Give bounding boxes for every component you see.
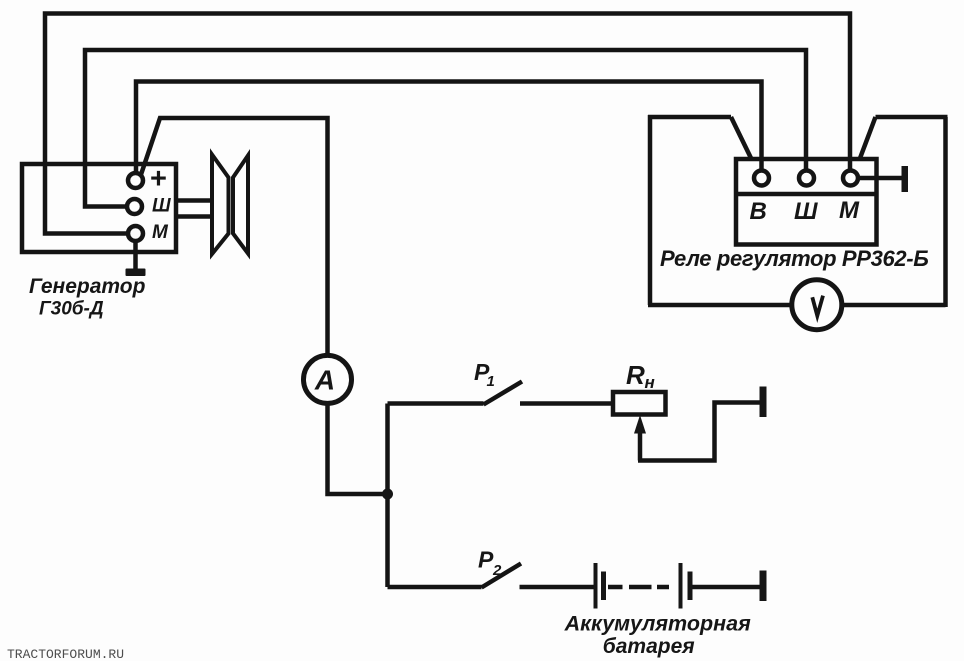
battery cell 1 long plate (594, 563, 598, 609)
relay terminal В (754, 171, 769, 186)
svg-text:TRACTORFORUM.RU: TRACTORFORUM.RU (7, 647, 124, 661)
wire: generator Ш to relay Ш (second loop) (85, 50, 806, 207)
wire: generator М to relay М (outermost loop) (45, 14, 850, 234)
rheostat wiper arrow shaft (638, 430, 643, 461)
wire: rheostat wiper to load terminal (638, 403, 760, 461)
wire: relay box top edge diagonal into terminal М (855, 117, 876, 172)
svg-text:Генератор: Генератор (29, 275, 146, 298)
wire: branch to switch P2 (388, 585, 482, 590)
wire: relay М terminal stub to stud (859, 176, 902, 181)
wire: battery to terminal bar (693, 585, 760, 590)
battery terminal bar (760, 571, 767, 602)
generator terminal Ш (127, 199, 142, 214)
voltmeter V (792, 280, 842, 330)
ammeter A (304, 355, 352, 403)
relay terminal Ш (799, 171, 814, 186)
wire: generator + through ammeter to junction node (141, 118, 388, 494)
ground symbol bar (126, 269, 146, 277)
svg-text:батарея: батарея (603, 635, 695, 658)
rheostat Rн body (613, 392, 666, 415)
relay terminal block divider line (736, 192, 877, 197)
svg-text:A: A (314, 365, 335, 396)
wire: generator М terminal to ground (133, 242, 138, 269)
svg-text:н: н (645, 373, 655, 392)
junction node dot (382, 489, 393, 500)
svg-text:2: 2 (492, 562, 502, 579)
relay terminal М (843, 171, 858, 186)
svg-text:Реле регулятор РР362-Б: Реле регулятор РР362-Б (660, 246, 928, 271)
svg-text:R: R (626, 360, 645, 390)
svg-text:Аккумуляторная: Аккумуляторная (564, 612, 751, 636)
wire: switch P2 to battery (520, 585, 594, 590)
svg-text:1: 1 (487, 373, 495, 390)
relay-regulator outer box top edge right segment (876, 115, 948, 120)
wire: dashed link between battery cells (608, 585, 669, 590)
svg-text:Ш: Ш (794, 198, 818, 225)
wire: junction branch vertical (to P1 and P2 feeds) (385, 404, 390, 588)
svg-text:М: М (839, 197, 860, 224)
battery cell 2 short plate (688, 572, 693, 601)
load terminal bar (right of Rн) (760, 387, 767, 418)
wire: relay box top edge diagonal into terminal В (731, 117, 758, 172)
wire: shaft lines from generator to pulley (176, 201, 212, 217)
svg-text:М: М (152, 222, 169, 243)
svg-text:Г30б-Д: Г30б-Д (39, 299, 104, 320)
wire: switch P1 to rheostat Rн (520, 401, 613, 406)
wire: branch to switch P1 (388, 401, 484, 406)
battery cell 2 long plate (679, 563, 683, 609)
pulley left sheave (212, 155, 229, 255)
rheostat wiper arrowhead (634, 415, 646, 434)
wire: generator + to relay В (third loop) (136, 82, 762, 175)
battery cell 1 short plate (601, 572, 606, 601)
relay-regulator outer box right edge (943, 117, 948, 307)
stud terminal bar at relay М (902, 166, 909, 192)
relay-regulator outer box left edge (648, 115, 653, 305)
generator box Г306-Д (22, 164, 176, 252)
generator terminal М (128, 226, 143, 241)
pulley right sheave (233, 156, 248, 254)
generator terminal + (128, 173, 143, 188)
switch P1 blade (484, 382, 523, 405)
relay terminal block (736, 159, 877, 245)
svg-text:Р: Р (478, 547, 494, 573)
svg-text:+: + (150, 163, 167, 195)
switch P2 blade (482, 564, 522, 588)
label: voltmeter letter V (812, 296, 823, 316)
svg-text:Ш: Ш (152, 196, 171, 217)
relay-regulator outer box bottom edge (648, 303, 946, 308)
svg-text:В: В (750, 198, 767, 225)
relay-regulator outer box top edge left segment (648, 115, 731, 120)
